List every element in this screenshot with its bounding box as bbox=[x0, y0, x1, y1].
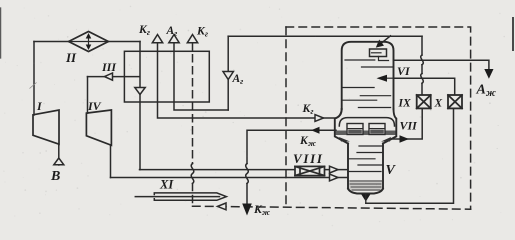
wire: Kzh run from column + drop with jogs bbox=[247, 130, 336, 163]
Kzh filled arrow left (at column) bbox=[311, 127, 320, 134]
column: dome + VI section walls bbox=[342, 42, 394, 109]
V internal lines bbox=[348, 146, 383, 172]
wire: II left to compressor I bbox=[33, 42, 35, 116]
arrow on dashed bottom (open, pointing left) bbox=[218, 203, 227, 210]
wire: drop from II wire down to wire A bbox=[139, 42, 141, 170]
valve arrow on Ar leg (open down triangle) bbox=[223, 72, 233, 80]
svg-text:XI: XI bbox=[159, 178, 174, 192]
Kr dashed top arrow (open up) bbox=[187, 35, 197, 43]
VII corner sediments bbox=[339, 137, 350, 142]
wire: right drop to valve IX (with jogs) bbox=[421, 36, 423, 55]
scan border artifact right bbox=[512, 18, 514, 50]
arrow on wire A (open right) bbox=[330, 166, 339, 173]
wire: Azh offtake bbox=[394, 60, 489, 70]
arrow on wire B (open right) bbox=[330, 174, 339, 181]
wire: top long line to column dome bbox=[228, 35, 422, 37]
VI internal trays bbox=[342, 60, 394, 108]
wire: Ar riser + jog to valve leg bbox=[174, 43, 228, 111]
VI feed arrow (filled, left) with line from wall bbox=[385, 77, 394, 79]
wire jog: dashed riser over wire A bbox=[191, 164, 194, 184]
wire B: turbine IV exhaust to column V bbox=[111, 177, 348, 179]
wire: VII vapor to valve IX bbox=[391, 108, 422, 139]
throttle III (open left arrow) bbox=[105, 73, 113, 80]
filled right arrow on VII line bbox=[400, 135, 410, 142]
Ar top arrow (open up) bbox=[169, 35, 179, 43]
component VIII (crossed box on wire A) bbox=[295, 166, 325, 175]
wire: V bottom to valve X bbox=[366, 108, 454, 203]
component XI (lance) bbox=[135, 196, 219, 198]
svg-text:VII: VII bbox=[400, 119, 419, 133]
wire: Ar valve leg vertical bbox=[227, 36, 229, 110]
wire III horizontal bbox=[88, 76, 140, 78]
compressor I (trapezoid) bbox=[33, 110, 59, 144]
diamond II bbox=[69, 32, 109, 52]
turbine IV (trapezoid) bbox=[86, 110, 111, 145]
dome distributor box bbox=[370, 49, 387, 57]
VII tray curve bbox=[339, 118, 394, 126]
double arrow inside II bbox=[88, 37, 90, 47]
scan border artifact left bbox=[0, 8, 2, 58]
valve arrow (open down triangle) on drop bbox=[135, 88, 145, 95]
vessel V walls bbox=[347, 144, 349, 189]
valve IX (crossed square) bbox=[417, 95, 431, 108]
arrow B (open up triangle) bbox=[54, 158, 64, 165]
V liquid (stippled) bbox=[349, 180, 382, 191]
wire: IV outlet down bbox=[110, 145, 112, 177]
Kzh filled arrow down bbox=[242, 204, 252, 216]
V outlet arrow (filled down) bbox=[361, 194, 370, 201]
wire: Kr line (solid riser + run to column) bbox=[158, 43, 337, 119]
VII bubble cap 2 bbox=[369, 124, 385, 135]
svg-text:X: X bbox=[434, 98, 443, 110]
wire: VI feed from valve X bbox=[394, 78, 455, 95]
wire through diamond bbox=[69, 41, 109, 43]
wire A: to column V upper (from drop) bbox=[140, 169, 348, 171]
wire: B inlet stem bbox=[58, 144, 60, 165]
wire: II horizontal left segment bbox=[34, 41, 69, 43]
Azh filled down arrow bbox=[484, 69, 493, 79]
VII section: flare + walls bbox=[335, 109, 348, 144]
Kr top arrow (open up) bbox=[152, 35, 162, 43]
dashed box (system boundary) bbox=[286, 27, 471, 209]
VII liquid strips bbox=[335, 131, 346, 136]
svg-text:В: В bbox=[50, 169, 60, 184]
arrow on Kr run (open, right) bbox=[315, 115, 324, 122]
regenerator box bbox=[124, 51, 209, 102]
svg-text:III: III bbox=[101, 60, 117, 74]
dashed bottom edge bbox=[193, 206, 471, 209]
svg-text:VI: VI bbox=[397, 64, 411, 78]
wire: II right to valve drop bbox=[108, 41, 140, 43]
wire: dashed Kr riser bbox=[192, 43, 194, 164]
V bottom dome bbox=[348, 189, 383, 194]
svg-text:II: II bbox=[65, 50, 77, 65]
wire: IV inlet from III line bbox=[87, 77, 89, 114]
VII bubble cap 1 bbox=[347, 124, 363, 135]
diagonal arrow into dome box bbox=[381, 36, 391, 44]
valve X (crossed square) bbox=[448, 95, 462, 108]
svg-text:IV: IV bbox=[87, 99, 102, 113]
svg-text:VIII: VIII bbox=[293, 151, 324, 166]
svg-text:IX: IX bbox=[398, 98, 411, 110]
